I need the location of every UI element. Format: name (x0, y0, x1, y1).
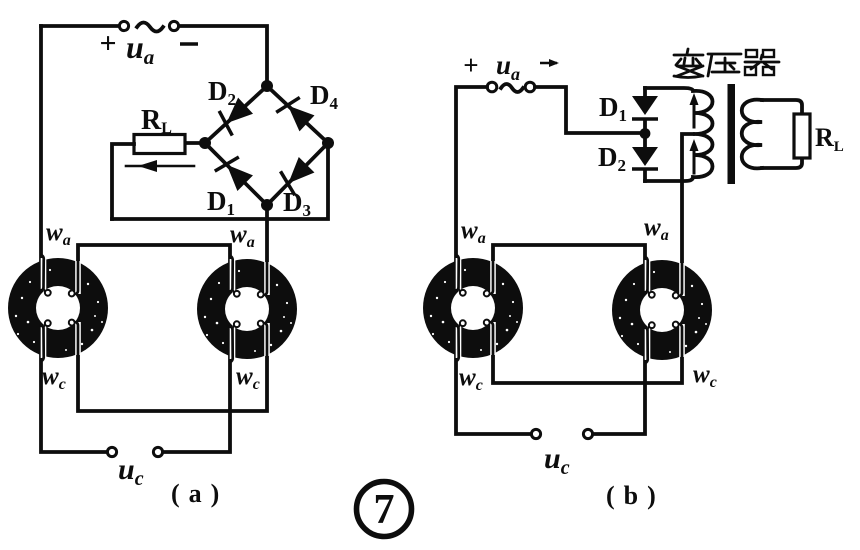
flux arrow upper head (b) (690, 93, 699, 105)
resistor RL (a) body (134, 135, 185, 154)
node dot bridge right (a) (322, 137, 334, 149)
toroid core T1 (a) (8, 255, 108, 361)
wire top rail right (a) (179, 26, 267, 82)
flux arrow upper line (b) (693, 100, 696, 127)
terminal uc left (a) (107, 447, 116, 456)
wire bridge left node to resistor (185, 141, 205, 145)
resistor RL (b) body (794, 114, 810, 158)
wire right rail to diodes (b) (535, 87, 640, 133)
label transformer 变压器 (674, 49, 779, 78)
wire junction to D2 anode (b) (643, 138, 647, 147)
ac tilde of ua (b) (501, 84, 523, 92)
diode D1 (b) (632, 96, 658, 119)
diode D2 (214, 95, 254, 135)
wire left rail (a) (39, 26, 43, 262)
wire wc left to uc terminal (a) (41, 356, 107, 452)
bridge edge bottom-left (205, 143, 267, 205)
node junction dot (b) (640, 128, 651, 139)
toroid core T2 (a) (197, 256, 297, 362)
terminal - of ua (a) (169, 21, 178, 30)
wire wc series link (a) (78, 356, 267, 411)
svg-text:+: + (463, 50, 478, 80)
transformer core (728, 84, 736, 184)
wire bridge bottom node down to torus T2 (a) (265, 205, 269, 263)
bridge edge bottom-right (267, 143, 328, 205)
diode D4 (276, 93, 316, 133)
current arrow line under RL (a) (126, 165, 194, 168)
label - (a) (180, 42, 198, 45)
transformer primary winding (645, 88, 713, 181)
svg-text:(b): (b) (606, 481, 656, 510)
current arrow head (a) (138, 160, 157, 172)
wire D1 anode up (b) (643, 88, 647, 97)
terminal - of ua (b) (525, 82, 535, 92)
toroid core T4 (b) (612, 257, 712, 363)
wire top rail left (a) (41, 24, 119, 28)
terminal uc right (b) (583, 429, 592, 438)
node dot bridge bottom (a) (261, 199, 273, 211)
wire wa series link (a) (78, 245, 230, 262)
bridge edge top-right (267, 86, 328, 143)
terminal uc right (a) (153, 447, 162, 456)
svg-text:+: + (99, 27, 116, 60)
svg-text:7: 7 (374, 487, 395, 533)
ac tilde of ua (a) (137, 23, 163, 32)
terminal + of ua (b) (487, 82, 497, 92)
wire bottom of RL loop (a) (112, 143, 328, 219)
wire RL left lead down (a) (112, 144, 134, 219)
wire uc right terminal to torus T2 (a) (163, 356, 230, 452)
wire D1 cathode to junction (b) (643, 120, 647, 129)
wire D2 cathode down (b) (643, 170, 647, 181)
wire secondary bottom to RL (b) (762, 158, 802, 168)
diode D1 (215, 152, 255, 192)
flux arrow lower line (b) (693, 146, 696, 173)
label arrow after ua (b) (540, 62, 557, 65)
bridge edge top-left (205, 86, 267, 143)
transformer secondary winding (742, 100, 762, 169)
terminal uc left (b) (531, 429, 540, 438)
wire wc series link (b) (493, 356, 682, 383)
wire wa series link (b) (493, 245, 645, 262)
toroid core T3 (b) (423, 255, 523, 361)
wire uc right terminal to torus T4 (b) (593, 358, 645, 434)
node dot bridge left (a) (199, 137, 211, 149)
diode D3 (276, 155, 316, 195)
svg-text:(a): (a) (171, 479, 219, 508)
wire primary centre tap down to torus T4 (b) (682, 134, 693, 264)
wire secondary top to RL (b) (762, 100, 802, 114)
wire left rail (b) (456, 87, 487, 261)
figure number circle (357, 482, 412, 537)
terminal + of ua (a) (119, 21, 128, 30)
diode D2 (b) (632, 147, 658, 169)
wire wc left to uc terminal (b) (456, 356, 531, 434)
node dot bridge top (a) (261, 80, 273, 92)
flux arrow lower head (b) (690, 139, 699, 151)
